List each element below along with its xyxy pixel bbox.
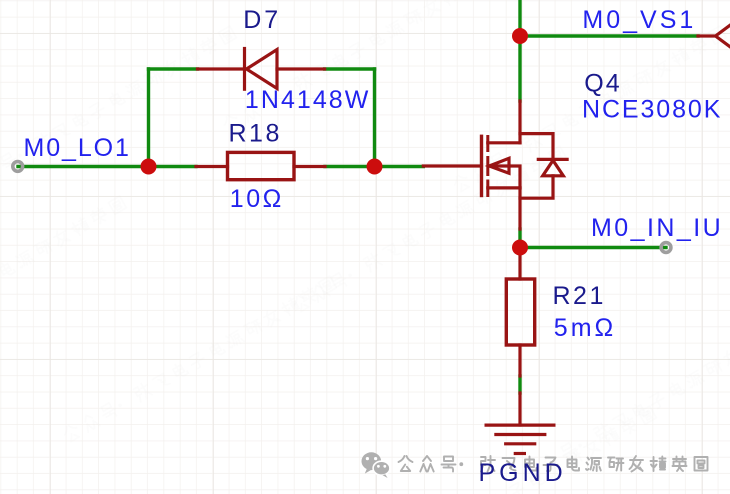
transistor Q4 body arrow line bbox=[489, 166, 520, 188]
watermark text (stylized) bbox=[399, 456, 708, 472]
pin end M0_IN_IU bbox=[661, 243, 671, 253]
ground bar 2 bbox=[496, 433, 545, 436]
wire: M0_LO1 horizontal bbox=[18, 165, 149, 168]
resistor R21 top lead bbox=[518, 248, 521, 280]
body diode top branch bbox=[520, 134, 553, 160]
port symbol M0_VS1 bbox=[698, 25, 730, 47]
svg-text:NCE3080K: NCE3080K bbox=[582, 96, 722, 124]
resistor R21 body bbox=[506, 279, 534, 345]
resistor R18 right lead bbox=[294, 165, 325, 168]
wire: M0_IN_IU horizontal bbox=[520, 246, 666, 249]
svg-text:M0_VS1: M0_VS1 bbox=[582, 6, 696, 34]
transistor Q4 drain pin bbox=[518, 101, 521, 143]
wire: R18 right bbox=[325, 165, 375, 168]
ground pin bbox=[518, 393, 521, 425]
resistor R18 left lead bbox=[196, 165, 228, 168]
svg-text:PGND: PGND bbox=[479, 459, 567, 487]
wire: M0_VS1 horizontal bbox=[520, 34, 698, 37]
wire: source vertical bbox=[518, 229, 521, 248]
wire: diode top right bbox=[325, 67, 375, 70]
junction node M0_LO1/D7/R18 bbox=[141, 159, 157, 175]
junction node M0_VS1/drain bbox=[512, 28, 528, 44]
transistor Q4 source pin bbox=[518, 188, 521, 229]
svg-text:D7: D7 bbox=[243, 6, 281, 34]
wire: right vertical from diode bbox=[373, 69, 376, 167]
transistor Q4 channel bottom segment bbox=[486, 181, 489, 196]
body diode triangle bbox=[543, 160, 564, 175]
svg-text:M0_IN_IU: M0_IN_IU bbox=[591, 214, 723, 242]
ground bar 4 bbox=[515, 452, 524, 455]
wire: gate bbox=[375, 165, 424, 168]
wire: left vertical to diode bbox=[147, 69, 150, 167]
diode D7 left lead bbox=[198, 67, 245, 70]
resistor R21 bottom lead bbox=[518, 345, 521, 376]
junction node D7/R18/gate bbox=[367, 159, 383, 175]
transistor Q4 gate bar bbox=[480, 136, 483, 195]
resistor R18 body bbox=[228, 152, 295, 179]
wire: R18 left bbox=[149, 165, 197, 168]
wire: R21 bottom bbox=[518, 376, 521, 393]
svg-text:10Ω: 10Ω bbox=[230, 185, 284, 213]
transistor Q4 channel middle segment bbox=[486, 158, 489, 175]
ground bar 3 bbox=[506, 442, 535, 445]
transistor Q4 drain connection bbox=[488, 141, 520, 144]
svg-text:5mΩ: 5mΩ bbox=[554, 314, 616, 342]
svg-text:M0_LO1: M0_LO1 bbox=[24, 134, 131, 162]
svg-text:Q4: Q4 bbox=[584, 70, 621, 98]
transistor Q4 source connection bbox=[488, 186, 520, 189]
transistor Q4 arrowhead bbox=[489, 158, 509, 173]
svg-text:1N4148W: 1N4148W bbox=[245, 86, 371, 114]
wire: diode top left bbox=[149, 67, 198, 70]
diode D7 triangle bbox=[247, 50, 278, 89]
diode D7 right lead bbox=[277, 67, 325, 70]
transistor Q4 channel top segment bbox=[486, 137, 489, 151]
diode D7 cathode bar bbox=[243, 49, 246, 90]
body diode cathode bar bbox=[538, 158, 567, 161]
junction node source/M0_IN_IU/R21 bbox=[512, 240, 528, 256]
svg-text:R18: R18 bbox=[229, 119, 282, 147]
body diode bottom branch bbox=[520, 176, 553, 198]
wire: top vertical M0_VS1 net bbox=[518, 0, 521, 101]
ground bar 1 bbox=[486, 424, 554, 427]
pin end M0_LO1 bbox=[13, 162, 23, 172]
svg-text:R21: R21 bbox=[553, 282, 606, 310]
watermark wechat icon bbox=[362, 452, 390, 478]
transistor Q4 gate lead bbox=[423, 164, 481, 167]
